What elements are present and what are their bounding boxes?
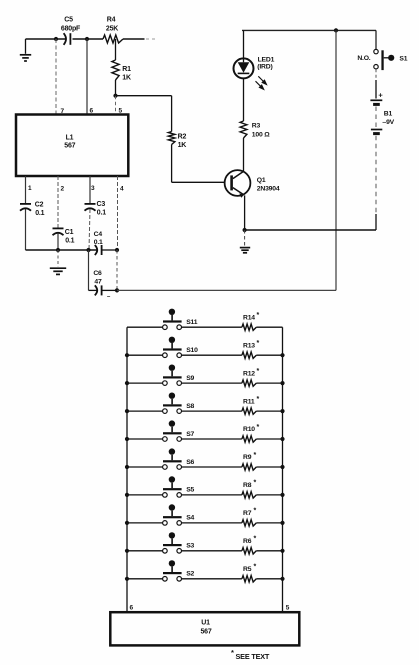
wire pin5 to R2 bbox=[116, 95, 172, 97]
svg-text:5: 5 bbox=[286, 605, 290, 612]
svg-text:S8: S8 bbox=[186, 403, 194, 410]
svg-text:4: 4 bbox=[120, 186, 124, 193]
wire pin1 lead bbox=[25, 176, 27, 204]
svg-text:S6: S6 bbox=[186, 459, 194, 466]
svg-text:SEE TEXT: SEE TEXT bbox=[236, 652, 270, 661]
svg-text:0.1: 0.1 bbox=[94, 239, 103, 246]
node supply rail junction bbox=[334, 28, 338, 32]
resistor R12 bbox=[242, 380, 256, 386]
switch S3 (pushbutton) bbox=[127, 550, 163, 552]
LED1 (IRD) bbox=[243, 30, 245, 58]
switch S6 (pushbutton) bbox=[127, 466, 163, 468]
wire S4 to R7 bbox=[182, 522, 242, 524]
wire pin2 lead bbox=[57, 176, 59, 228]
transistor Q1 2N3904 bbox=[225, 170, 251, 196]
wire pin5 lead bbox=[115, 96, 117, 115]
svg-text:R4: R4 bbox=[107, 17, 116, 24]
resistor R2 bbox=[171, 96, 173, 132]
svg-text:R1: R1 bbox=[122, 66, 131, 73]
switch S2 (pushbutton) bbox=[127, 578, 163, 580]
svg-text:6: 6 bbox=[90, 108, 94, 115]
resistor R7 bbox=[242, 520, 256, 526]
ground mid symbol bbox=[57, 250, 59, 267]
wire left keypad bus bbox=[126, 327, 128, 612]
svg-text:S9: S9 bbox=[186, 375, 194, 382]
svg-text:680pF: 680pF bbox=[61, 26, 81, 33]
svg-text:S11: S11 bbox=[186, 319, 198, 326]
capacitor C5 bbox=[64, 33, 66, 45]
svg-text:Q1: Q1 bbox=[257, 177, 266, 184]
op-amp U1 (tone decoder L1 567) bbox=[16, 115, 128, 177]
wire pin4 to C6 node bbox=[116, 250, 118, 290]
ground at emitter bbox=[244, 230, 246, 246]
node pin6 junction bbox=[85, 37, 89, 41]
svg-text:S10: S10 bbox=[186, 347, 198, 354]
wire R2 to Q1 base bbox=[172, 181, 225, 183]
svg-text:C4: C4 bbox=[94, 231, 103, 238]
LED emission arrows bbox=[256, 76, 267, 89]
svg-text:2: 2 bbox=[61, 186, 65, 193]
svg-text:7: 7 bbox=[61, 108, 65, 115]
node pin4 junction bbox=[115, 248, 119, 252]
wire pin4 lead bbox=[117, 176, 119, 250]
svg-text:R8: R8 bbox=[243, 482, 252, 489]
svg-text:S1: S1 bbox=[399, 56, 407, 63]
svg-text:567: 567 bbox=[64, 143, 75, 150]
svg-text:(IRD): (IRD) bbox=[257, 64, 272, 71]
svg-text:R13: R13 bbox=[243, 342, 255, 349]
wire S2 to R5 bbox=[182, 578, 242, 580]
node C6 output junction bbox=[115, 288, 119, 292]
switch S8 (pushbutton) bbox=[127, 410, 163, 412]
wire S3 to R6 bbox=[182, 550, 242, 552]
svg-text:LED1: LED1 bbox=[258, 56, 275, 63]
node right bus junction row S3 bbox=[280, 549, 284, 553]
svg-text:567: 567 bbox=[200, 629, 211, 636]
wire emitter to battery return bbox=[245, 229, 376, 231]
svg-text:N.O.: N.O. bbox=[357, 55, 370, 62]
svg-text:S3: S3 bbox=[186, 543, 194, 550]
battery B1 bbox=[375, 69, 377, 80]
resistor R4 bbox=[103, 35, 123, 43]
node left bus junction row S5 bbox=[125, 493, 129, 497]
switch S9 (pushbutton) bbox=[127, 382, 163, 384]
capacitor C2 bbox=[20, 203, 31, 205]
svg-text:C2: C2 bbox=[35, 202, 44, 209]
wire R4 output stub bbox=[123, 38, 145, 40]
ground rail horizontal bbox=[26, 249, 97, 251]
svg-text:100 Ω: 100 Ω bbox=[252, 132, 270, 139]
svg-text:R11: R11 bbox=[243, 398, 255, 405]
node pin5 junction bbox=[113, 94, 117, 98]
wire S5 to R8 bbox=[182, 494, 242, 496]
node C1 ground junction bbox=[56, 248, 60, 252]
node right bus junction row S5 bbox=[280, 493, 284, 497]
wire top-left horizontal bbox=[26, 38, 67, 40]
wire pin3 to ground rail bbox=[89, 209, 90, 250]
node left bus junction row S10 bbox=[125, 353, 129, 357]
svg-text:47: 47 bbox=[94, 279, 102, 286]
wire C1 to ground rail bbox=[57, 234, 59, 250]
resistor R11 bbox=[242, 408, 256, 414]
svg-text:1K: 1K bbox=[122, 75, 131, 82]
node pin7 junction bbox=[54, 37, 58, 41]
svg-text:2N3904: 2N3904 bbox=[257, 185, 280, 192]
svg-text:25K: 25K bbox=[106, 26, 118, 33]
switch S5 (pushbutton) bbox=[127, 494, 163, 496]
svg-text:B1: B1 bbox=[384, 110, 393, 117]
svg-text:0.1: 0.1 bbox=[35, 210, 44, 217]
node emitter junction bbox=[243, 228, 247, 232]
svg-text:*: * bbox=[231, 648, 234, 657]
resistor R5 bbox=[242, 576, 256, 582]
svg-text:R10: R10 bbox=[243, 426, 255, 433]
svg-text:0.1: 0.1 bbox=[65, 237, 74, 244]
svg-text:1: 1 bbox=[28, 185, 32, 192]
svg-text:C3: C3 bbox=[97, 201, 106, 208]
node right bus junction row S4 bbox=[280, 521, 284, 525]
wire LED to R3 bbox=[243, 78, 245, 121]
resistor R3 bbox=[240, 121, 247, 138]
svg-text:R12: R12 bbox=[243, 370, 255, 377]
ground top-left bbox=[25, 39, 27, 54]
resistor R1 bbox=[115, 39, 117, 60]
node left bus junction row S9 bbox=[125, 381, 129, 385]
capacitor C1 bbox=[53, 227, 64, 229]
svg-text:R9: R9 bbox=[243, 454, 252, 461]
svg-text:C5: C5 bbox=[64, 17, 73, 24]
wire pin6 lead bbox=[86, 39, 88, 115]
switch S10 (pushbutton) bbox=[127, 354, 163, 356]
capacitor C4 bbox=[95, 245, 97, 255]
svg-text:R7: R7 bbox=[243, 510, 252, 517]
op-amp U1 (tone decoder 567) bbox=[110, 612, 299, 645]
wire S11 to R14 bbox=[182, 326, 242, 328]
wire S6 to R9 bbox=[182, 466, 242, 468]
svg-text:3: 3 bbox=[91, 185, 95, 192]
node right bus junction row S7 bbox=[280, 437, 284, 441]
svg-text:R3: R3 bbox=[252, 122, 261, 129]
svg-text:L1: L1 bbox=[66, 135, 74, 142]
wire pin7 lead bbox=[55, 39, 57, 115]
node left bus junction row S2 bbox=[125, 577, 129, 581]
node right bus junction row S8 bbox=[280, 409, 284, 413]
svg-text:0.1: 0.1 bbox=[97, 209, 106, 216]
switch S7 (pushbutton) bbox=[127, 438, 163, 440]
resistor R9 bbox=[242, 464, 256, 470]
wire S9 to R12 bbox=[182, 382, 242, 384]
capacitor C3 bbox=[85, 203, 96, 205]
node left bus junction row S7 bbox=[125, 437, 129, 441]
wire S7 to R10 bbox=[182, 438, 242, 440]
wire S10 to R13 bbox=[182, 354, 242, 356]
svg-text:R2: R2 bbox=[178, 134, 187, 141]
resistor R10 bbox=[242, 436, 256, 442]
svg-text:U1: U1 bbox=[201, 620, 210, 627]
svg-text:S7: S7 bbox=[186, 431, 194, 438]
switch S4 (pushbutton) bbox=[127, 522, 163, 524]
svg-text:1K: 1K bbox=[178, 142, 187, 149]
svg-text:C1: C1 bbox=[65, 229, 74, 236]
resistor R14 bbox=[242, 324, 256, 330]
node pin3 rail junction bbox=[86, 248, 90, 252]
switch S1 (N.O. pushbutton) bbox=[375, 30, 377, 49]
svg-text:R14: R14 bbox=[243, 314, 255, 321]
wire top supply rail bbox=[242, 29, 376, 31]
node left bus junction row S3 bbox=[125, 549, 129, 553]
node left bus junction row S6 bbox=[125, 465, 129, 469]
svg-text:R6: R6 bbox=[243, 538, 252, 545]
node left bus junction row S8 bbox=[125, 409, 129, 413]
svg-text:S5: S5 bbox=[186, 487, 194, 494]
node left bus junction row S4 bbox=[125, 521, 129, 525]
resistor R8 bbox=[242, 492, 256, 498]
resistor R6 bbox=[242, 548, 256, 554]
node right bus junction row S6 bbox=[280, 465, 284, 469]
node right bus junction row S2 bbox=[280, 577, 284, 581]
svg-text:C6: C6 bbox=[93, 270, 102, 277]
wire Q1 emitter down bbox=[244, 195, 246, 230]
wire right keypad bus bbox=[282, 327, 284, 612]
capacitor C6 bbox=[95, 285, 97, 295]
wire R3 to Q1 collector bbox=[243, 138, 245, 171]
wire battery to ground return bbox=[375, 136, 377, 214]
svg-text:S2: S2 bbox=[186, 571, 194, 578]
wire pin3 lead bbox=[89, 176, 91, 204]
resistor R13 bbox=[242, 352, 256, 358]
svg-text:‒9V: ‒9V bbox=[382, 119, 395, 126]
svg-text:S4: S4 bbox=[186, 515, 194, 522]
node right bus junction row S9 bbox=[280, 381, 284, 385]
wire S8 to R11 bbox=[182, 410, 242, 412]
node right bus junction row S10 bbox=[280, 353, 284, 357]
svg-text:R5: R5 bbox=[243, 566, 252, 573]
wire supply vertical drop bbox=[335, 30, 337, 290]
svg-text:6: 6 bbox=[130, 605, 134, 612]
wire ground node down to C6 bbox=[88, 250, 90, 290]
svg-text:5: 5 bbox=[119, 108, 123, 115]
wire C6 node to supply vertical bbox=[117, 289, 336, 291]
wire pin1 to ground rail bbox=[25, 209, 27, 250]
switch S11 (pushbutton) bbox=[127, 326, 163, 328]
